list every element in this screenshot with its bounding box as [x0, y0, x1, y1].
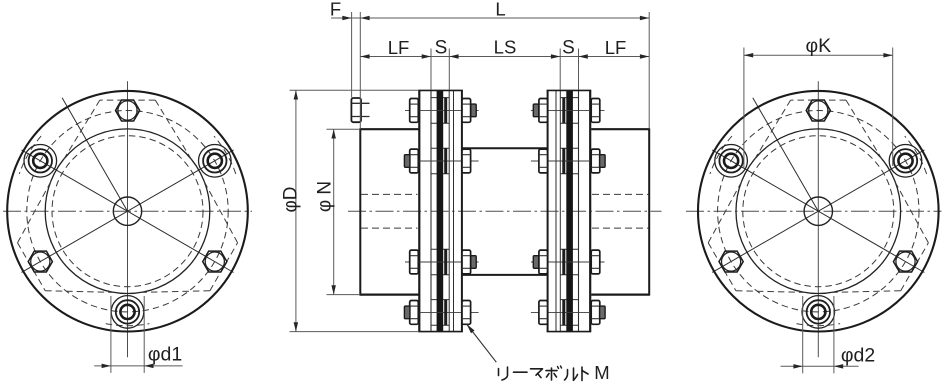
svg-text:S: S: [435, 38, 448, 59]
pack1 bolt axis line y=312.4: [405, 311, 479, 313]
right view reamer bolt with washer at 150deg: [715, 145, 748, 178]
extension line x=431.0: [430, 49, 432, 90]
pack2 hub-flange plate inner edge: [578, 90, 580, 331]
phi-K left arrow: [744, 53, 753, 58]
pack2 plates top edge: [547, 89, 592, 91]
right hub bottom edge: [591, 294, 649, 296]
left view phantom outline of mating flange: [100, 99, 156, 101]
spacer tube top edge: [462, 147, 548, 149]
right hub face: [648, 128, 650, 295]
pack1 nut L y=161.0: [410, 149, 419, 173]
left view hex bolt at 90deg: [116, 100, 140, 121]
label: riima boruto M (reamer bolt M): [498, 369, 500, 376]
right view radial centerline 120deg (phantom bolt): [753, 98, 819, 211]
svg-text:φd2: φd2: [841, 344, 875, 366]
pack1 bolt sleeve line upper y=262.0: [431, 248, 449, 250]
svg-text:φK: φK: [805, 35, 831, 57]
phi-N bottom extension line: [327, 294, 361, 296]
clamp bolt head (F) on left hub face: [351, 98, 361, 122]
left view radial line 150deg: [22, 150, 128, 211]
right view outer circle (flange OD): [698, 91, 939, 332]
right view radial line 330deg: [818, 211, 924, 272]
pack2 nut R y=161.0: [539, 149, 548, 173]
pack1 nut L y=262.0: [410, 250, 419, 274]
left hub bore hidden line top: [361, 193, 418, 195]
pack1 bolt thread stub y=312.4: [404, 306, 410, 319]
right view hex bolt at 90deg: [806, 100, 830, 121]
svg-text:L: L: [495, 0, 505, 20]
pack1 spacer-flange plate line: [453, 90, 455, 331]
left view reamer bolt with washer at 270deg: [111, 296, 144, 329]
phi-D bottom extension line: [290, 331, 420, 333]
phi-N dimension line: [333, 129, 335, 294]
pack1 hub-flange plate inner edge: [430, 90, 432, 331]
pack1 bolt collar at y=161.0: [444, 148, 447, 174]
svg-text:LF: LF: [605, 37, 627, 58]
side view centerline: [348, 210, 662, 212]
pack2 bolt thread stub y=161.0: [600, 155, 606, 168]
pack1 plates bottom edge: [418, 331, 463, 333]
pack1 bolt thread stub y=110.4: [471, 104, 476, 117]
svg-text:LF: LF: [388, 37, 410, 58]
phi-d2 right extension line: [833, 296, 835, 373]
pack1 nut L y=312.4: [410, 301, 419, 325]
left view hidden circle: [52, 136, 203, 287]
right view hidden circle: [743, 136, 894, 287]
phi-K right arrow: [883, 53, 892, 58]
pack2 nut R y=312.4: [539, 301, 548, 325]
phi-d1 dimension line: [94, 365, 182, 367]
pack2 bolt sleeve line lower y=161.0: [560, 173, 578, 175]
F and L dimension line: [331, 17, 649, 19]
phi-d1 right extension line: [143, 296, 145, 373]
pack2 bolt axis line y=262.0: [531, 261, 605, 263]
pack1 hub-flange plate outer edge: [418, 90, 420, 331]
pack2 bolt axis line y=110.4: [531, 109, 605, 111]
LF2 right arrow: [640, 54, 649, 59]
leader line: reamer bolt M: [467, 324, 497, 362]
bolt head facet/shank line lower: [352, 116, 370, 118]
pack2 spacer-flange plate outer edge: [547, 90, 549, 331]
pack2 nut L y=110.4: [591, 99, 600, 123]
pack2 nut L y=262.0: [591, 250, 600, 274]
right view bolt circle (PCD): [718, 111, 919, 312]
pack1 nut R y=262.0: [462, 250, 471, 274]
left view radial line 330deg: [128, 211, 234, 272]
phi-K right extension line: [892, 48, 894, 167]
phi-K left extension line: [743, 48, 745, 169]
right view horizontal centerline: [686, 210, 942, 212]
phi-d1 right arrow: [144, 364, 153, 369]
pack1 bolt axis line y=262.0: [405, 261, 479, 263]
phi-K dimension line: [744, 54, 893, 56]
L right extension line: [648, 12, 650, 129]
left view horizontal centerline: [3, 210, 252, 212]
pack1 disc pack (black): [437, 90, 444, 331]
right view radial line 150deg: [712, 150, 818, 211]
pack2 bolt collar at y=312.4: [562, 300, 565, 326]
pack1 nut R y=161.0: [462, 149, 471, 173]
pack1 bolt thread stub y=161.0: [404, 155, 410, 168]
left view radial line 210deg: [22, 211, 128, 272]
pack1 bolt sleeve line lower y=312.4: [431, 324, 449, 326]
pack1 bolt sleeve line upper y=161.0: [431, 147, 449, 149]
right view radial line 30deg: [818, 150, 924, 211]
extension line x=578.5: [578, 49, 580, 90]
pack2 disc pack (black): [566, 90, 573, 331]
pack2 plates bottom edge: [547, 331, 592, 333]
L right arrow: [640, 16, 649, 20]
right hub bore hidden line bottom: [592, 227, 649, 229]
svg-text:φd1: φd1: [148, 343, 182, 365]
pack1 bolt collar at y=262.0: [444, 249, 447, 275]
LF1 left arrow: [360, 54, 369, 59]
pack1 bolt sleeve line lower y=110.4: [431, 122, 449, 124]
left view reamer bolt with washer at 30deg: [199, 145, 232, 178]
right view hex bolt at 210deg: [719, 251, 743, 272]
pack2 nut R y=110.4: [539, 99, 548, 123]
phi-d2 left extension line: [802, 296, 804, 373]
pack1 bolt sleeve line upper y=110.4: [431, 97, 449, 99]
pack2 bolt collar at y=110.4: [562, 98, 565, 124]
right hub bore hidden line top: [592, 193, 649, 195]
pack1 spacer-flange plate inner edge: [448, 90, 450, 331]
phi-N top extension line: [327, 128, 361, 130]
svg-text:LS: LS: [494, 37, 517, 58]
right view hub boss circle: [736, 129, 901, 294]
left hub face: [359, 128, 361, 295]
S2 left arrow: [551, 54, 560, 59]
pack2 bolt thread stub y=262.0: [533, 256, 538, 269]
right view bore circle: [804, 197, 832, 225]
pack2 spacer-flange plate line: [555, 90, 557, 331]
leader arrow: [467, 324, 475, 333]
pack2 bolt axis line y=161.0: [531, 160, 605, 162]
left view hub boss circle: [45, 129, 210, 294]
pack1 bolt sleeve line lower y=262.0: [431, 274, 449, 276]
left view hex bolt at 210deg: [28, 251, 52, 272]
pack2 bolt collar at y=161.0: [562, 148, 565, 174]
F arrow: [342, 16, 351, 20]
F left extension line: [351, 12, 353, 98]
pack1 bolt collar at y=312.4: [444, 300, 447, 326]
right view radial line 210deg: [712, 211, 818, 272]
F/L extension line at hub face: [359, 12, 361, 129]
right hub top edge: [591, 128, 649, 130]
phi-D dimension line: [295, 90, 297, 331]
phi-d1 left extension line: [110, 296, 112, 373]
pack2 bolt sleeve line lower y=262.0: [560, 274, 578, 276]
pack1 bolt sleeve line upper y=312.4: [431, 299, 449, 301]
svg-text:φ N: φ N: [315, 181, 336, 212]
right view phantom outline of mating flange: [791, 99, 846, 101]
left view reamer bolt with washer at 150deg: [24, 145, 57, 178]
left hub bore hidden line bottom: [361, 227, 418, 229]
pack2 bolt sleeve line upper y=161.0: [560, 147, 578, 149]
pack2 nut R y=262.0: [539, 250, 548, 274]
extension line x=449.3: [448, 49, 450, 90]
left view bore circle: [113, 197, 141, 225]
pack2 bolt thread stub y=110.4: [533, 104, 538, 117]
pack1 bolt thread stub y=262.0: [471, 256, 476, 269]
phi-d2 right arrow: [834, 364, 843, 369]
phi-d1 left arrow: [102, 364, 111, 369]
pack2 bolt thread stub y=312.4: [600, 306, 606, 319]
extension line x=560.2: [559, 49, 561, 90]
phi-d2 left arrow: [793, 364, 802, 369]
phi-N bottom arrow: [331, 285, 336, 294]
S2 right arrow: [579, 54, 588, 59]
right view reamer bolt with washer at 30deg: [889, 145, 922, 178]
left view outer circle (flange OD): [7, 91, 248, 332]
pack1 bolt axis line y=110.4: [405, 109, 479, 111]
S1 left arrow: [422, 54, 431, 59]
left view vertical centerline: [127, 81, 129, 357]
bolt head facet/shank line upper: [352, 102, 370, 104]
svg-text:φD: φD: [281, 186, 302, 212]
pack1 bolt sleeve line lower y=161.0: [431, 173, 449, 175]
pack2 spacer-flange plate inner edge: [559, 90, 561, 331]
pack2 bolt sleeve line upper y=262.0: [560, 248, 578, 250]
S1 right arrow: [449, 54, 458, 59]
pack2 nut L y=161.0: [591, 149, 600, 173]
phi-D bottom arrow: [294, 322, 299, 331]
pack2 bolt sleeve line lower y=110.4: [560, 122, 578, 124]
pack1 nut R y=110.4: [462, 99, 471, 123]
left view hex bolt at 330deg: [203, 251, 227, 272]
svg-text:M: M: [594, 362, 609, 383]
right view reamer bolt with washer at 270deg: [802, 296, 835, 329]
right view hex bolt at 330deg: [893, 251, 917, 272]
left view radial centerline 120deg (phantom bolt): [62, 98, 127, 211]
pack1 nut R y=312.4: [462, 301, 471, 325]
pack2 bolt collar at y=262.0: [562, 249, 565, 275]
pack2 bolt sleeve line upper y=312.4: [560, 299, 578, 301]
LF-S-LS-S-LF dimension line: [360, 56, 649, 58]
right view vertical centerline: [817, 81, 819, 357]
pack2 hub-flange plate outer edge: [589, 90, 591, 331]
pack2 bolt axis line y=312.4: [531, 311, 605, 313]
phi-D top extension line: [290, 89, 419, 91]
left hub bottom edge: [360, 294, 419, 296]
left view bolt circle (PCD): [27, 111, 228, 312]
svg-text:F: F: [330, 0, 341, 20]
pack1 spacer-flange plate outer edge: [461, 90, 463, 331]
left view radial line 30deg: [128, 150, 234, 211]
phi-D top arrow: [294, 90, 299, 99]
pack1 bolt axis line y=161.0: [405, 160, 479, 162]
phi-N top arrow: [331, 129, 336, 138]
pack1 nut L y=110.4: [410, 99, 419, 123]
pack2 bolt sleeve line upper y=110.4: [560, 97, 578, 99]
pack1 bolt collar at y=110.4: [444, 98, 447, 124]
pack2 nut L y=312.4: [591, 301, 600, 325]
left hub top edge: [360, 128, 419, 130]
pack1 plates top edge: [418, 89, 463, 91]
spacer tube bottom edge: [462, 274, 548, 276]
svg-text:S: S: [562, 38, 575, 59]
pack2 bolt sleeve line lower y=312.4: [560, 324, 578, 326]
phi-d2 dimension line: [781, 365, 859, 367]
L left arrow: [360, 16, 369, 20]
